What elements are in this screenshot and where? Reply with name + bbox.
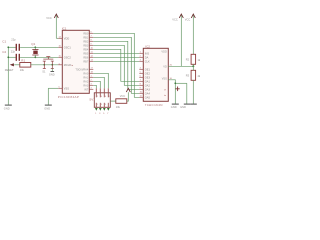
svg-text:RB2: RB2 <box>83 39 89 43</box>
resistor R2 <box>186 54 201 64</box>
svg-text:VCC: VCC <box>185 17 191 21</box>
svg-text:CLK: CLK <box>145 59 150 63</box>
svg-text:VDD: VDD <box>64 36 70 40</box>
svg-text:OA2: OA2 <box>145 83 151 87</box>
svg-text:OE2: OE2 <box>145 71 151 75</box>
svg-text:GND: GND <box>4 107 10 111</box>
VCC arrow top left <box>46 14 58 38</box>
svg-text:▸: ▸ <box>72 64 73 67</box>
resistor R4 <box>116 99 127 109</box>
wire arrow to R1 <box>14 64 19 66</box>
svg-text:PIC16F84AP: PIC16F84AP <box>58 95 80 99</box>
svg-text:C2: C2 <box>2 50 6 54</box>
switch S1 <box>43 57 54 69</box>
IC1 right pin labels <box>75 31 88 91</box>
svg-text:VCC: VCC <box>46 16 52 20</box>
svg-text:INS: INS <box>145 51 150 55</box>
wire R1 to MCLR <box>31 64 59 66</box>
resistor R3 <box>186 70 202 80</box>
svg-text:8: 8 <box>109 96 110 98</box>
wire R2 to R3 <box>192 64 194 70</box>
wire VDD pin to R chain <box>168 65 194 67</box>
IC2 left pin stubs <box>139 53 143 97</box>
svg-text:10k: 10k <box>20 68 25 72</box>
connector pin numbers <box>95 113 109 115</box>
svg-text:VCC: VCC <box>172 17 178 21</box>
svg-text:DA: DA <box>145 55 149 59</box>
wire C1 to OSC1 <box>20 46 58 48</box>
connector pin number specks <box>97 96 109 106</box>
svg-text:OE1: OE1 <box>145 67 151 71</box>
svg-text:S1: S1 <box>42 70 46 74</box>
pin numbers IC1 left <box>59 37 62 89</box>
svg-text:OA3: OA3 <box>145 87 151 91</box>
IC IC1 PIC16F84 body <box>58 26 90 99</box>
svg-text:RB3: RB3 <box>83 43 89 47</box>
wire bus RB5 <box>93 52 139 54</box>
IC IC2 74HC164 body <box>143 44 168 107</box>
svg-text:IC1: IC1 <box>62 26 67 30</box>
pin numbers IC1 right <box>91 32 94 90</box>
wire RA4 to connector <box>93 85 96 88</box>
svg-text:IC2: IC2 <box>145 44 150 48</box>
svg-text:OSC1: OSC1 <box>64 45 72 49</box>
svg-text:R1: R1 <box>21 58 25 62</box>
wire RA2 to connector <box>93 77 104 88</box>
ground GND2 <box>44 105 52 111</box>
svg-text:RA3: RA3 <box>83 83 89 87</box>
svg-text:OE3: OE3 <box>145 75 151 79</box>
svg-text:1: 1 <box>97 104 98 106</box>
wire bus RB4 <box>93 49 139 81</box>
VCC arrow R chain <box>185 14 196 54</box>
wire bus RB1 <box>93 37 139 93</box>
svg-text:RB5: RB5 <box>83 51 89 55</box>
svg-text:RB7: RB7 <box>83 59 89 63</box>
svg-text:RB0: RB0 <box>83 31 89 35</box>
svg-text:3: 3 <box>101 104 102 106</box>
IC1 right pin stubs <box>89 33 93 89</box>
svg-text:INT: INT <box>84 87 89 91</box>
wire bus RB2 <box>93 41 139 89</box>
svg-text:OA5: OA5 <box>145 95 151 99</box>
svg-text:VSS: VSS <box>64 86 69 90</box>
svg-text:2: 2 <box>97 96 98 98</box>
svg-text:VCC: VCC <box>120 94 126 98</box>
svg-text:GND: GND <box>49 72 55 76</box>
VCC arrow connector <box>120 88 131 98</box>
svg-text:▸: ▸ <box>165 88 166 91</box>
capacitor C2 <box>2 49 19 61</box>
svg-text:RB6: RB6 <box>83 55 89 59</box>
svg-text:RB1: RB1 <box>83 35 89 39</box>
svg-text:22p: 22p <box>11 49 16 53</box>
connector bottom pin stubs <box>96 103 108 108</box>
svg-text:SV1: SV1 <box>89 97 95 101</box>
wire bus RB0 <box>93 33 139 97</box>
svg-text:GND: GND <box>180 105 186 109</box>
ground GND5 <box>190 103 197 105</box>
svg-text:RA0: RA0 <box>83 71 89 75</box>
wire bus RB7 <box>93 60 139 62</box>
crystal Q1 <box>31 42 38 58</box>
svg-text:VD: VD <box>163 64 167 68</box>
capacitor C1 <box>2 37 19 51</box>
buzzer plus mark <box>176 87 180 92</box>
wire RA3 to connector <box>93 81 100 88</box>
wire R4 to VCC arrow <box>127 92 129 101</box>
svg-text:OA4: OA4 <box>145 91 151 95</box>
wire RA1 to connector <box>93 73 108 88</box>
pin numbers IC2 left <box>140 52 143 98</box>
IC2 left pin labels <box>145 51 151 99</box>
svg-text:T0CKI/RA4: T0CKI/RA4 <box>75 67 88 71</box>
svg-text:1k: 1k <box>198 58 201 62</box>
wire left vertical net <box>7 47 9 105</box>
svg-text:Q1: Q1 <box>31 42 35 46</box>
buzzer SG1 <box>175 83 187 104</box>
ground GND1 <box>4 105 12 111</box>
node junction dots left net <box>7 46 36 58</box>
wire bus RB3 <box>93 45 139 85</box>
svg-text:VSS: VSS <box>162 77 167 81</box>
wire bus RB6 <box>93 56 139 58</box>
pin numbers IC2 right <box>170 65 173 81</box>
svg-text:RESET: RESET <box>5 68 14 72</box>
svg-text:74HC164N: 74HC164N <box>145 103 163 107</box>
svg-text:R3: R3 <box>186 73 190 77</box>
ground GND3 <box>171 104 179 109</box>
connector bottom pin arrows <box>95 108 110 111</box>
svg-text:R2: R2 <box>186 57 190 61</box>
svg-text:4: 4 <box>101 96 102 98</box>
wire VCC to VDD pin <box>56 37 58 39</box>
resistor R1 <box>20 58 31 72</box>
svg-text:GND: GND <box>171 105 177 109</box>
svg-text:RB4: RB4 <box>83 47 89 51</box>
svg-text:GND: GND <box>44 107 50 111</box>
connector SV1 body <box>89 93 110 108</box>
svg-text:10k: 10k <box>116 105 121 109</box>
svg-text:RA2: RA2 <box>83 79 89 83</box>
svg-text:OSC2: OSC2 <box>64 55 72 59</box>
svg-text:4k7: 4k7 <box>198 74 201 78</box>
svg-text:5: 5 <box>105 104 106 106</box>
wire VSS to GND2 <box>48 88 58 105</box>
wire VSS pin to ground <box>168 80 175 104</box>
IC1 left pin labels <box>64 36 73 90</box>
wire connector to R4 <box>110 100 116 102</box>
connector top pin stubs <box>96 88 108 97</box>
svg-text:▸: ▸ <box>165 94 166 97</box>
IC2 right pin labels <box>161 49 167 80</box>
reset pinhead arrow <box>5 63 14 72</box>
wire R3 to ground <box>192 80 194 104</box>
wire C2 to OSC2 <box>20 56 58 58</box>
svg-text:6: 6 <box>105 96 106 98</box>
svg-text:MCLR: MCLR <box>64 63 71 67</box>
svg-text:RA1: RA1 <box>83 75 89 79</box>
svg-text:VDD: VDD <box>161 49 167 53</box>
svg-text:OA1: OA1 <box>145 79 151 83</box>
VCC arrow IC2 <box>172 14 183 66</box>
IC1 left pin stubs <box>58 38 62 88</box>
svg-text:C1: C1 <box>2 39 6 43</box>
ground GND4 <box>180 104 190 109</box>
svg-text:22p: 22p <box>11 37 16 41</box>
node S1 contacts <box>43 64 53 66</box>
